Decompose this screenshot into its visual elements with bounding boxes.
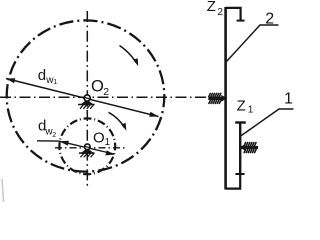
gear 2 disk line (side view) [224,7,227,190]
vertical centerline through O2 and O1 [86,11,88,186]
bearing of shaft 2 (hatched block) [209,93,222,104]
horizontal centerline through O2 [0,96,206,98]
svg-text:Z: Z [207,0,216,15]
svg-text:O: O [91,77,104,95]
svg-text:d: d [38,67,46,84]
label O1 [93,130,111,148]
dimension line d_w1 (diameter of wheel 2) [6,78,159,117]
svg-text:O: O [93,130,105,147]
rotation arrow of wheel 1 (middle) [109,112,127,131]
svg-text:1: 1 [248,105,254,116]
svg-text:2: 2 [265,11,274,28]
fixed pivot support at O1 [79,144,95,157]
rotation arrow of wheel 2 (upper right) [120,46,139,67]
wheel 1 pitch circle (small dash-dot circle d_w2) [59,118,115,174]
svg-text:2: 2 [217,7,223,18]
gear 2 top rim bracket [226,8,245,21]
svg-text:1: 1 [53,79,57,86]
label d_w2 [38,117,56,139]
fixed pivot support at O2 [78,95,95,109]
gear 1 line (side view) [235,123,246,176]
svg-text:2: 2 [103,86,109,98]
horizontal centerline through O1 [55,147,126,149]
svg-text:1: 1 [105,137,111,148]
mesh point tooth mark (shared T-serif) [235,173,244,175]
scan artifact bottom left [2,179,4,202]
callout 1: leader line and underline [241,109,294,136]
label Z2 [207,0,224,18]
callout label 1 [284,91,293,108]
callout label 2 [265,11,274,28]
label O2 [91,77,109,98]
shaft 2 stub with cone pivot [208,95,227,102]
svg-text:2: 2 [52,132,56,139]
gear 2 bottom rim bracket [226,174,241,189]
dimension line d_w2 (diameter of wheel 1) with leader underline [37,141,115,156]
svg-text:Z: Z [237,98,246,115]
bearing of shaft 1 (hatched block) [244,142,256,153]
svg-text:1: 1 [284,91,293,108]
label d_w1 [38,67,57,86]
label Z1 [237,98,254,116]
shaft 1 stub with cone pivot [240,144,258,151]
wheel 2 pitch circle (big dash-dot circle d_w1) [7,20,165,171]
callout 2: leader line and underline [227,25,279,62]
